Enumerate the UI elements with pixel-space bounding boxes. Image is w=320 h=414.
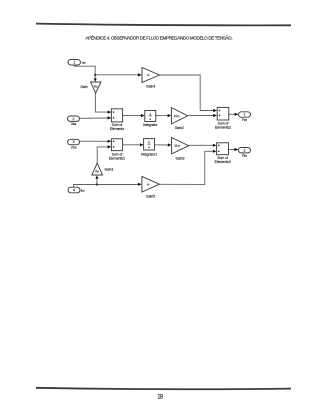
svg-text:Elements3: Elements3 — [215, 160, 231, 164]
arrow into outport Far — [235, 113, 239, 116]
inport 1 Ias — [68, 60, 86, 66]
svg-text:Integrator1: Integrator1 — [141, 152, 158, 156]
wire oval2 Vas to Sum of Elements bottom input — [80, 117, 108, 119]
svg-text:Ibs: Ibs — [81, 188, 85, 192]
block Sum of Elements1 — [109, 139, 125, 161]
block Sum of Elements2 — [215, 107, 231, 129]
inport 4 Ibs — [68, 187, 85, 193]
header rule — [36, 24, 291, 26]
arrow into Sum of Elements1 bottom — [108, 145, 112, 148]
svg-text:-K-: -K- — [147, 73, 151, 77]
svg-text:Fbr: Fbr — [242, 154, 248, 158]
block Sum of Elements3 — [215, 143, 231, 164]
node junction row4 — [96, 183, 98, 185]
node junction row1 — [94, 74, 96, 76]
arrow into Gain5 — [138, 183, 142, 186]
svg-text:2: 2 — [73, 117, 75, 121]
arrow into Gain2 — [168, 114, 172, 117]
svg-text:Gain2: Gain2 — [175, 126, 184, 130]
wire Gain3 to Sum of Elements3 top input — [189, 144, 213, 146]
svg-text:Elements2: Elements2 — [215, 125, 231, 129]
inport 3 Vbs — [68, 139, 80, 149]
wire oval3 Vbs to Sum of Elements1 top input — [80, 140, 108, 142]
arrow into Sum of Elements3 top — [213, 144, 217, 147]
wire oval4 Ibs to Gain5 input — [74, 185, 139, 188]
wire Sum of Elements to Integrator — [123, 115, 142, 117]
svg-text:2: 2 — [244, 148, 246, 152]
arrow into Sum of Elements2 bottom — [213, 114, 217, 117]
arrow into Sum of Elements2 top — [213, 109, 217, 112]
svg-text:Far: Far — [242, 118, 248, 122]
wire Sum of Elements3 to outport Fbr — [229, 148, 235, 150]
svg-text:-K-: -K- — [147, 182, 151, 186]
gain Gain3 (1/Lm) — [172, 138, 189, 161]
wire Sum of Elements2 to outport Far — [229, 113, 235, 115]
svg-text:Vas: Vas — [71, 122, 77, 126]
wire Gain5 output to Sum of Elements3 bottom input — [159, 151, 213, 184]
block Integrator — [143, 111, 158, 128]
wire oval1 to junction and Gain top — [74, 65, 95, 79]
gain Gain5 (-K-) — [142, 176, 160, 198]
svg-text:Integrator: Integrator — [143, 123, 158, 127]
arrow into Integrator1 — [140, 143, 144, 146]
footer rule — [36, 388, 291, 389]
block Sum of Elements — [110, 109, 124, 131]
title text — [86, 35, 233, 41]
svg-text:Gain3: Gain3 — [175, 156, 184, 160]
svg-text:Elements1: Elements1 — [109, 156, 125, 160]
svg-text:Vbs: Vbs — [71, 146, 77, 150]
arrow into Sum of Elements top — [108, 111, 112, 114]
svg-text:3: 3 — [73, 140, 75, 144]
wire Gain1 output up to Sum of Elements1 bottom input — [97, 147, 108, 163]
svg-text:1/Lm: 1/Lm — [174, 145, 180, 148]
svg-text:Gain: Gain — [80, 85, 87, 89]
page number — [157, 394, 164, 401]
arrow into outport Fbr — [235, 148, 239, 151]
svg-text:4: 4 — [73, 188, 75, 192]
inport 2 Vas — [68, 116, 80, 126]
arrow into Integrator — [141, 114, 145, 117]
svg-text:1: 1 — [244, 113, 246, 117]
svg-text:Elements: Elements — [110, 127, 124, 131]
svg-text:Gain4: Gain4 — [146, 84, 155, 88]
gain Gain1 (Rs, pointing up) — [92, 163, 114, 175]
gain Gain (Rs, pointing down) — [80, 82, 101, 93]
wire Gain output down to Sum of Elements top input — [95, 93, 108, 112]
arrow into Sum of Elements1 top — [108, 140, 112, 143]
outport 1 Far — [239, 112, 251, 122]
wire Integrator1 to Gain3 — [155, 144, 169, 146]
svg-text:1/Lm: 1/Lm — [174, 115, 180, 118]
arrow into Gain top — [94, 78, 97, 82]
svg-text:APÉNDICE 4. OBSERVADOR DE FLUJ: APÉNDICE 4. OBSERVADOR DE FLUJO EMPREGAN… — [86, 35, 233, 41]
wire Sum of Elements1 to Integrator1 — [123, 144, 141, 146]
arrow into Sum of Elements3 bottom — [213, 150, 217, 153]
svg-text:1: 1 — [73, 60, 75, 64]
wire Gain2 to Sum of Elements2 bottom input — [188, 115, 214, 117]
gain Gain4 (-K-) — [142, 68, 159, 89]
wire junction to Gain4 input — [95, 74, 138, 76]
arrow into Gain1 (pointing up) — [95, 175, 98, 179]
outport 2 Fbr — [239, 148, 251, 158]
svg-text:Gain1: Gain1 — [105, 168, 114, 172]
wire Gain4 output to Sum of Elements2 top input — [159, 75, 213, 111]
block Integrator1 — [141, 139, 158, 157]
arrow into Gain3 — [168, 143, 172, 146]
wire junction row4 up to Gain1 — [96, 179, 98, 184]
arrow into Gain4 — [138, 73, 142, 76]
gain Gain2 (1/Lm) — [171, 108, 187, 130]
svg-text:Ias: Ias — [82, 61, 86, 65]
arrow into Sum of Elements bottom — [108, 116, 112, 119]
svg-text:Gain5: Gain5 — [146, 194, 155, 198]
svg-text:18: 18 — [157, 394, 164, 401]
wire Integrator to Gain2 — [156, 115, 168, 117]
